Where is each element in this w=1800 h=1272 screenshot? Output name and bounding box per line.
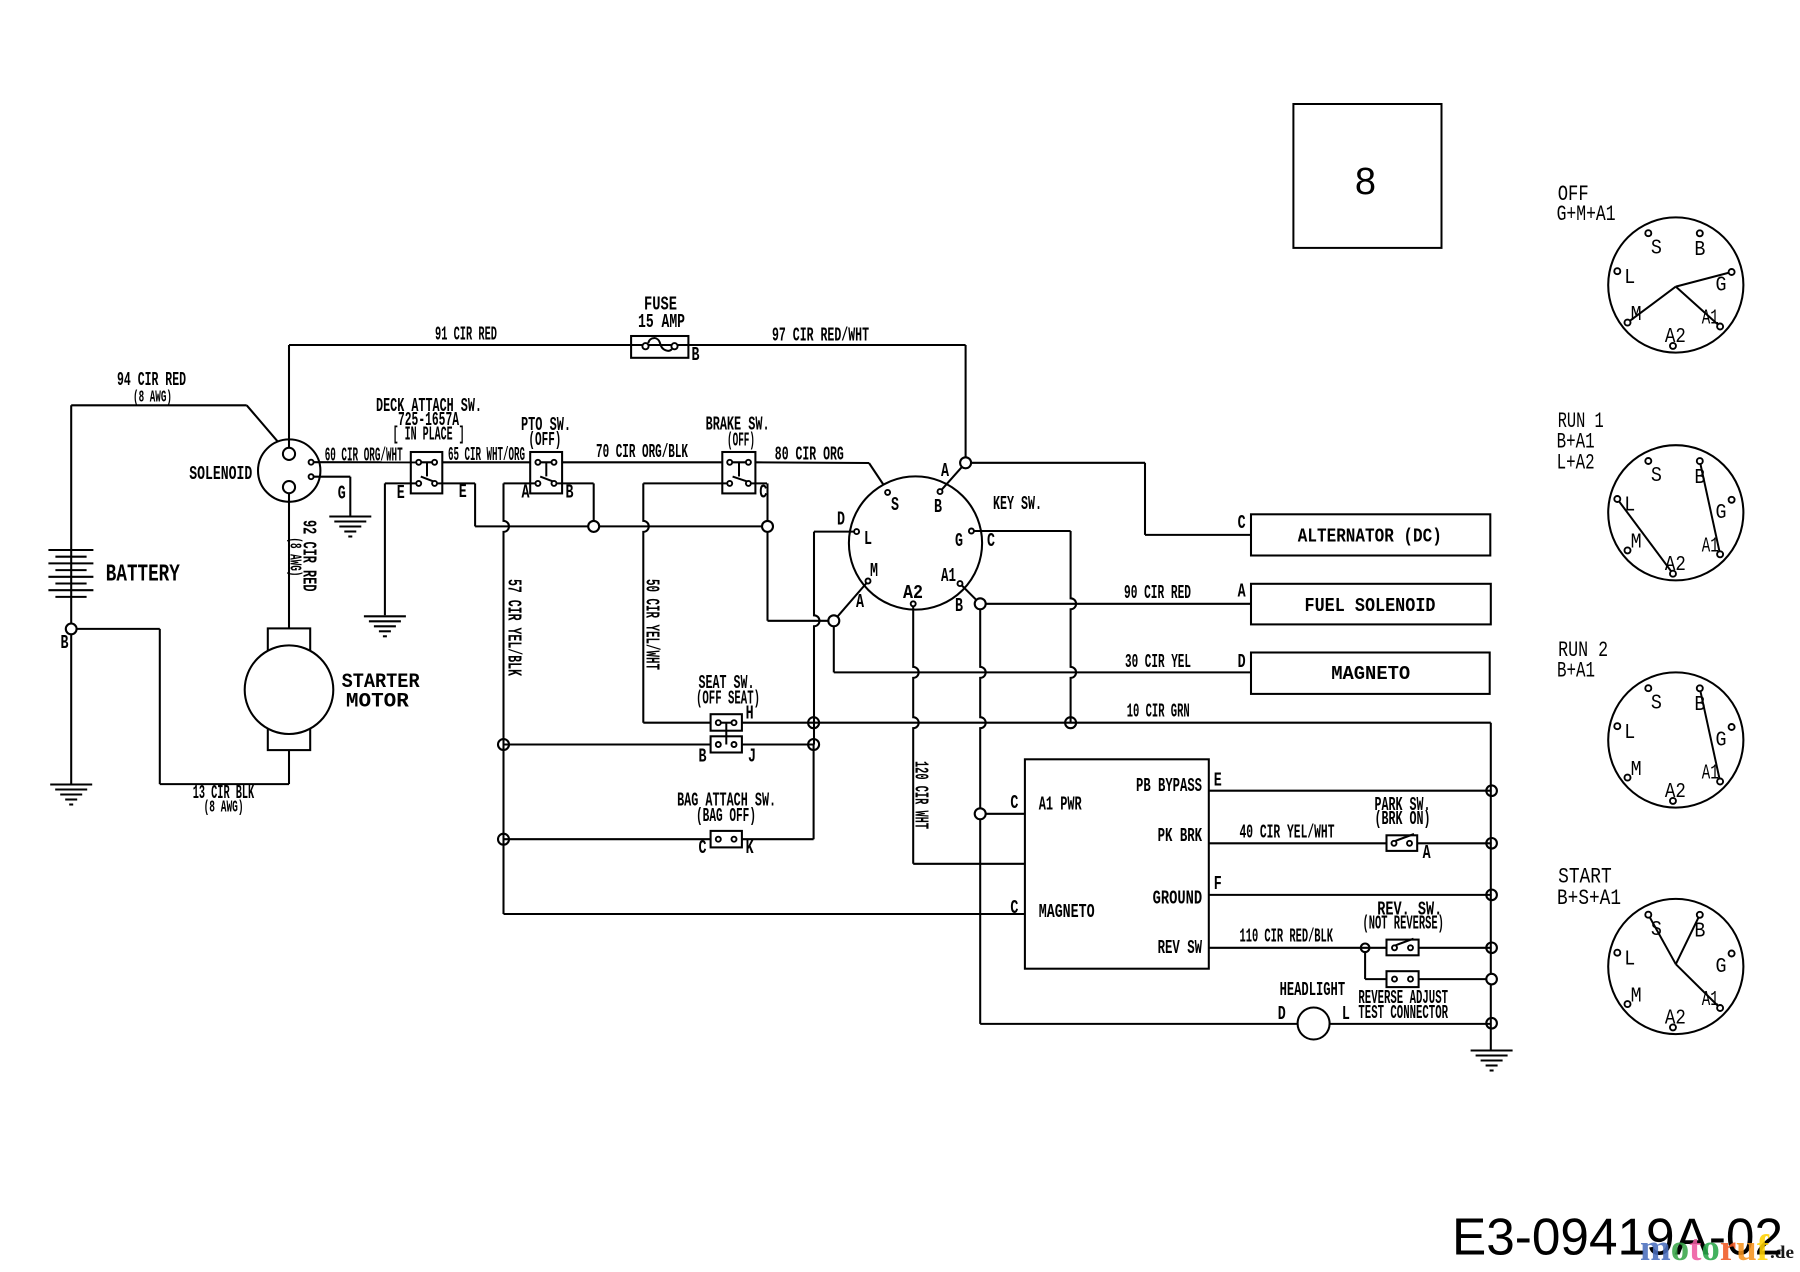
svg-text:G: G xyxy=(1716,956,1727,979)
svg-text:E: E xyxy=(459,481,467,503)
svg-text:110 CIR RED/BLK: 110 CIR RED/BLK xyxy=(1240,926,1334,948)
svg-text:30 CIR YEL: 30 CIR YEL xyxy=(1125,651,1191,673)
svg-text:57 CIR YEL/BLK: 57 CIR YEL/BLK xyxy=(503,579,525,676)
svg-text:97 CIR RED/WHT: 97 CIR RED/WHT xyxy=(772,325,869,347)
svg-text:8: 8 xyxy=(1355,161,1376,203)
svg-text:K: K xyxy=(746,837,754,859)
svg-text:C: C xyxy=(1010,897,1018,919)
svg-text:B: B xyxy=(955,595,963,617)
svg-text:S: S xyxy=(1651,692,1662,715)
svg-text:M: M xyxy=(1631,759,1642,782)
svg-text:L: L xyxy=(1624,948,1635,971)
svg-text:motoruf: motoruf xyxy=(1640,1228,1770,1269)
svg-text:E: E xyxy=(397,482,405,504)
svg-text:A2: A2 xyxy=(1665,554,1686,577)
svg-text:A2: A2 xyxy=(1665,781,1686,804)
svg-text:A: A xyxy=(522,482,530,504)
svg-text:50 CIR YEL/WHT: 50 CIR YEL/WHT xyxy=(641,579,663,670)
svg-text:B: B xyxy=(1694,921,1705,944)
svg-text:M: M xyxy=(1631,304,1642,327)
svg-text:A1: A1 xyxy=(1702,535,1719,558)
svg-text:G+M+A1: G+M+A1 xyxy=(1557,202,1616,227)
svg-text:S: S xyxy=(1651,465,1662,488)
svg-text:15 AMP: 15 AMP xyxy=(638,311,685,333)
svg-text:G: G xyxy=(955,530,963,552)
svg-text:B+S+A1: B+S+A1 xyxy=(1557,886,1621,911)
svg-text:65 CIR WHT/ORG: 65 CIR WHT/ORG xyxy=(448,444,525,466)
svg-text:B: B xyxy=(699,746,707,768)
svg-text:(8 AWG): (8 AWG) xyxy=(133,389,172,408)
svg-text:MAGNETO: MAGNETO xyxy=(1039,901,1095,923)
svg-text:90 CIR RED: 90 CIR RED xyxy=(1124,582,1191,604)
svg-text:G: G xyxy=(1716,502,1727,525)
svg-text:PK BRK: PK BRK xyxy=(1158,825,1203,847)
svg-text:G: G xyxy=(1716,274,1727,297)
svg-text:D: D xyxy=(837,509,845,531)
svg-text:M: M xyxy=(1631,532,1642,555)
svg-text:G: G xyxy=(338,482,346,504)
svg-text:C: C xyxy=(1010,792,1018,814)
svg-text:B: B xyxy=(61,632,69,654)
svg-text:A1 PWR: A1 PWR xyxy=(1039,794,1082,816)
svg-text:L: L xyxy=(1624,722,1635,745)
svg-text:MOTOR: MOTOR xyxy=(346,690,409,713)
svg-text:(BAG OFF): (BAG OFF) xyxy=(696,805,756,827)
svg-text:(8 AWG): (8 AWG) xyxy=(204,799,244,818)
svg-text:(BRK ON): (BRK ON) xyxy=(1375,808,1431,830)
svg-text:A: A xyxy=(1423,842,1431,864)
svg-text:L+A2: L+A2 xyxy=(1557,450,1595,475)
svg-text:(OFF): (OFF) xyxy=(528,429,561,451)
svg-text:TEST CONNECTOR: TEST CONNECTOR xyxy=(1358,1002,1448,1024)
svg-text:10 CIR GRN: 10 CIR GRN xyxy=(1127,701,1190,723)
svg-text:B: B xyxy=(1694,239,1705,262)
svg-text:A: A xyxy=(941,460,949,482)
svg-text:BATTERY: BATTERY xyxy=(106,562,180,589)
svg-text:(OFF): (OFF) xyxy=(727,429,755,451)
svg-text:L: L xyxy=(1342,1003,1350,1025)
svg-text:B: B xyxy=(934,496,942,518)
svg-text:MAGNETO: MAGNETO xyxy=(1331,663,1410,685)
svg-text:SOLENOID: SOLENOID xyxy=(189,463,252,485)
svg-text:B+A1: B+A1 xyxy=(1557,659,1595,684)
svg-text:KEY SW.: KEY SW. xyxy=(993,493,1042,515)
svg-text:A2: A2 xyxy=(1665,326,1686,349)
svg-text:D: D xyxy=(1238,651,1246,673)
svg-text:[ IN PLACE ]: [ IN PLACE ] xyxy=(393,424,465,446)
svg-text:G: G xyxy=(1716,729,1727,752)
svg-text:A: A xyxy=(856,591,864,613)
svg-text:70 CIR ORG/BLK: 70 CIR ORG/BLK xyxy=(596,441,688,463)
svg-text:C: C xyxy=(1238,512,1246,534)
svg-text:S: S xyxy=(1651,919,1662,942)
svg-text:F: F xyxy=(1214,873,1222,895)
svg-text:HEADLIGHT: HEADLIGHT xyxy=(1280,979,1346,1001)
svg-text:B: B xyxy=(566,482,574,504)
svg-text:A1: A1 xyxy=(1702,308,1719,331)
svg-text:L: L xyxy=(1624,495,1635,518)
svg-text:REV SW: REV SW xyxy=(1158,937,1203,959)
svg-text:L: L xyxy=(1624,267,1635,290)
svg-text:S: S xyxy=(1651,237,1662,260)
svg-text:A2: A2 xyxy=(903,582,923,604)
svg-text:M: M xyxy=(870,560,878,582)
svg-text:40 CIR YEL/WHT: 40 CIR YEL/WHT xyxy=(1240,822,1335,844)
svg-text:80 CIR ORG: 80 CIR ORG xyxy=(775,444,844,466)
svg-text:A1: A1 xyxy=(1702,989,1719,1012)
svg-text:S: S xyxy=(891,494,899,516)
svg-text:B: B xyxy=(692,344,700,366)
svg-text:E: E xyxy=(1214,770,1222,792)
svg-text:91 CIR RED: 91 CIR RED xyxy=(435,324,497,346)
svg-text:.de: .de xyxy=(1770,1242,1794,1262)
svg-text:A1: A1 xyxy=(941,565,956,587)
svg-text:(NOT REVERSE): (NOT REVERSE) xyxy=(1363,913,1444,935)
svg-text:FUEL SOLENOID: FUEL SOLENOID xyxy=(1305,595,1436,617)
svg-text:60 CIR ORG/WHT: 60 CIR ORG/WHT xyxy=(325,445,403,467)
svg-text:M: M xyxy=(1631,985,1642,1008)
svg-text:L: L xyxy=(864,528,872,550)
svg-text:C: C xyxy=(987,530,995,552)
svg-text:C: C xyxy=(699,837,707,859)
svg-text:J: J xyxy=(748,746,756,768)
svg-text:ALTERNATOR (DC): ALTERNATOR (DC) xyxy=(1298,526,1442,548)
svg-text:C: C xyxy=(759,482,767,504)
svg-text:A1: A1 xyxy=(1702,763,1719,786)
svg-text:B: B xyxy=(1694,694,1705,717)
svg-text:A: A xyxy=(1238,581,1246,603)
svg-text:H: H xyxy=(746,703,754,725)
svg-text:PB BYPASS: PB BYPASS xyxy=(1136,775,1202,797)
svg-text:B: B xyxy=(1694,467,1705,490)
svg-text:A2: A2 xyxy=(1665,1008,1686,1031)
svg-text:120 CIR WHT: 120 CIR WHT xyxy=(910,761,932,829)
svg-text:D: D xyxy=(1278,1003,1286,1025)
svg-text:(8 AWG): (8 AWG) xyxy=(285,537,304,576)
svg-text:GROUND: GROUND xyxy=(1153,888,1203,910)
